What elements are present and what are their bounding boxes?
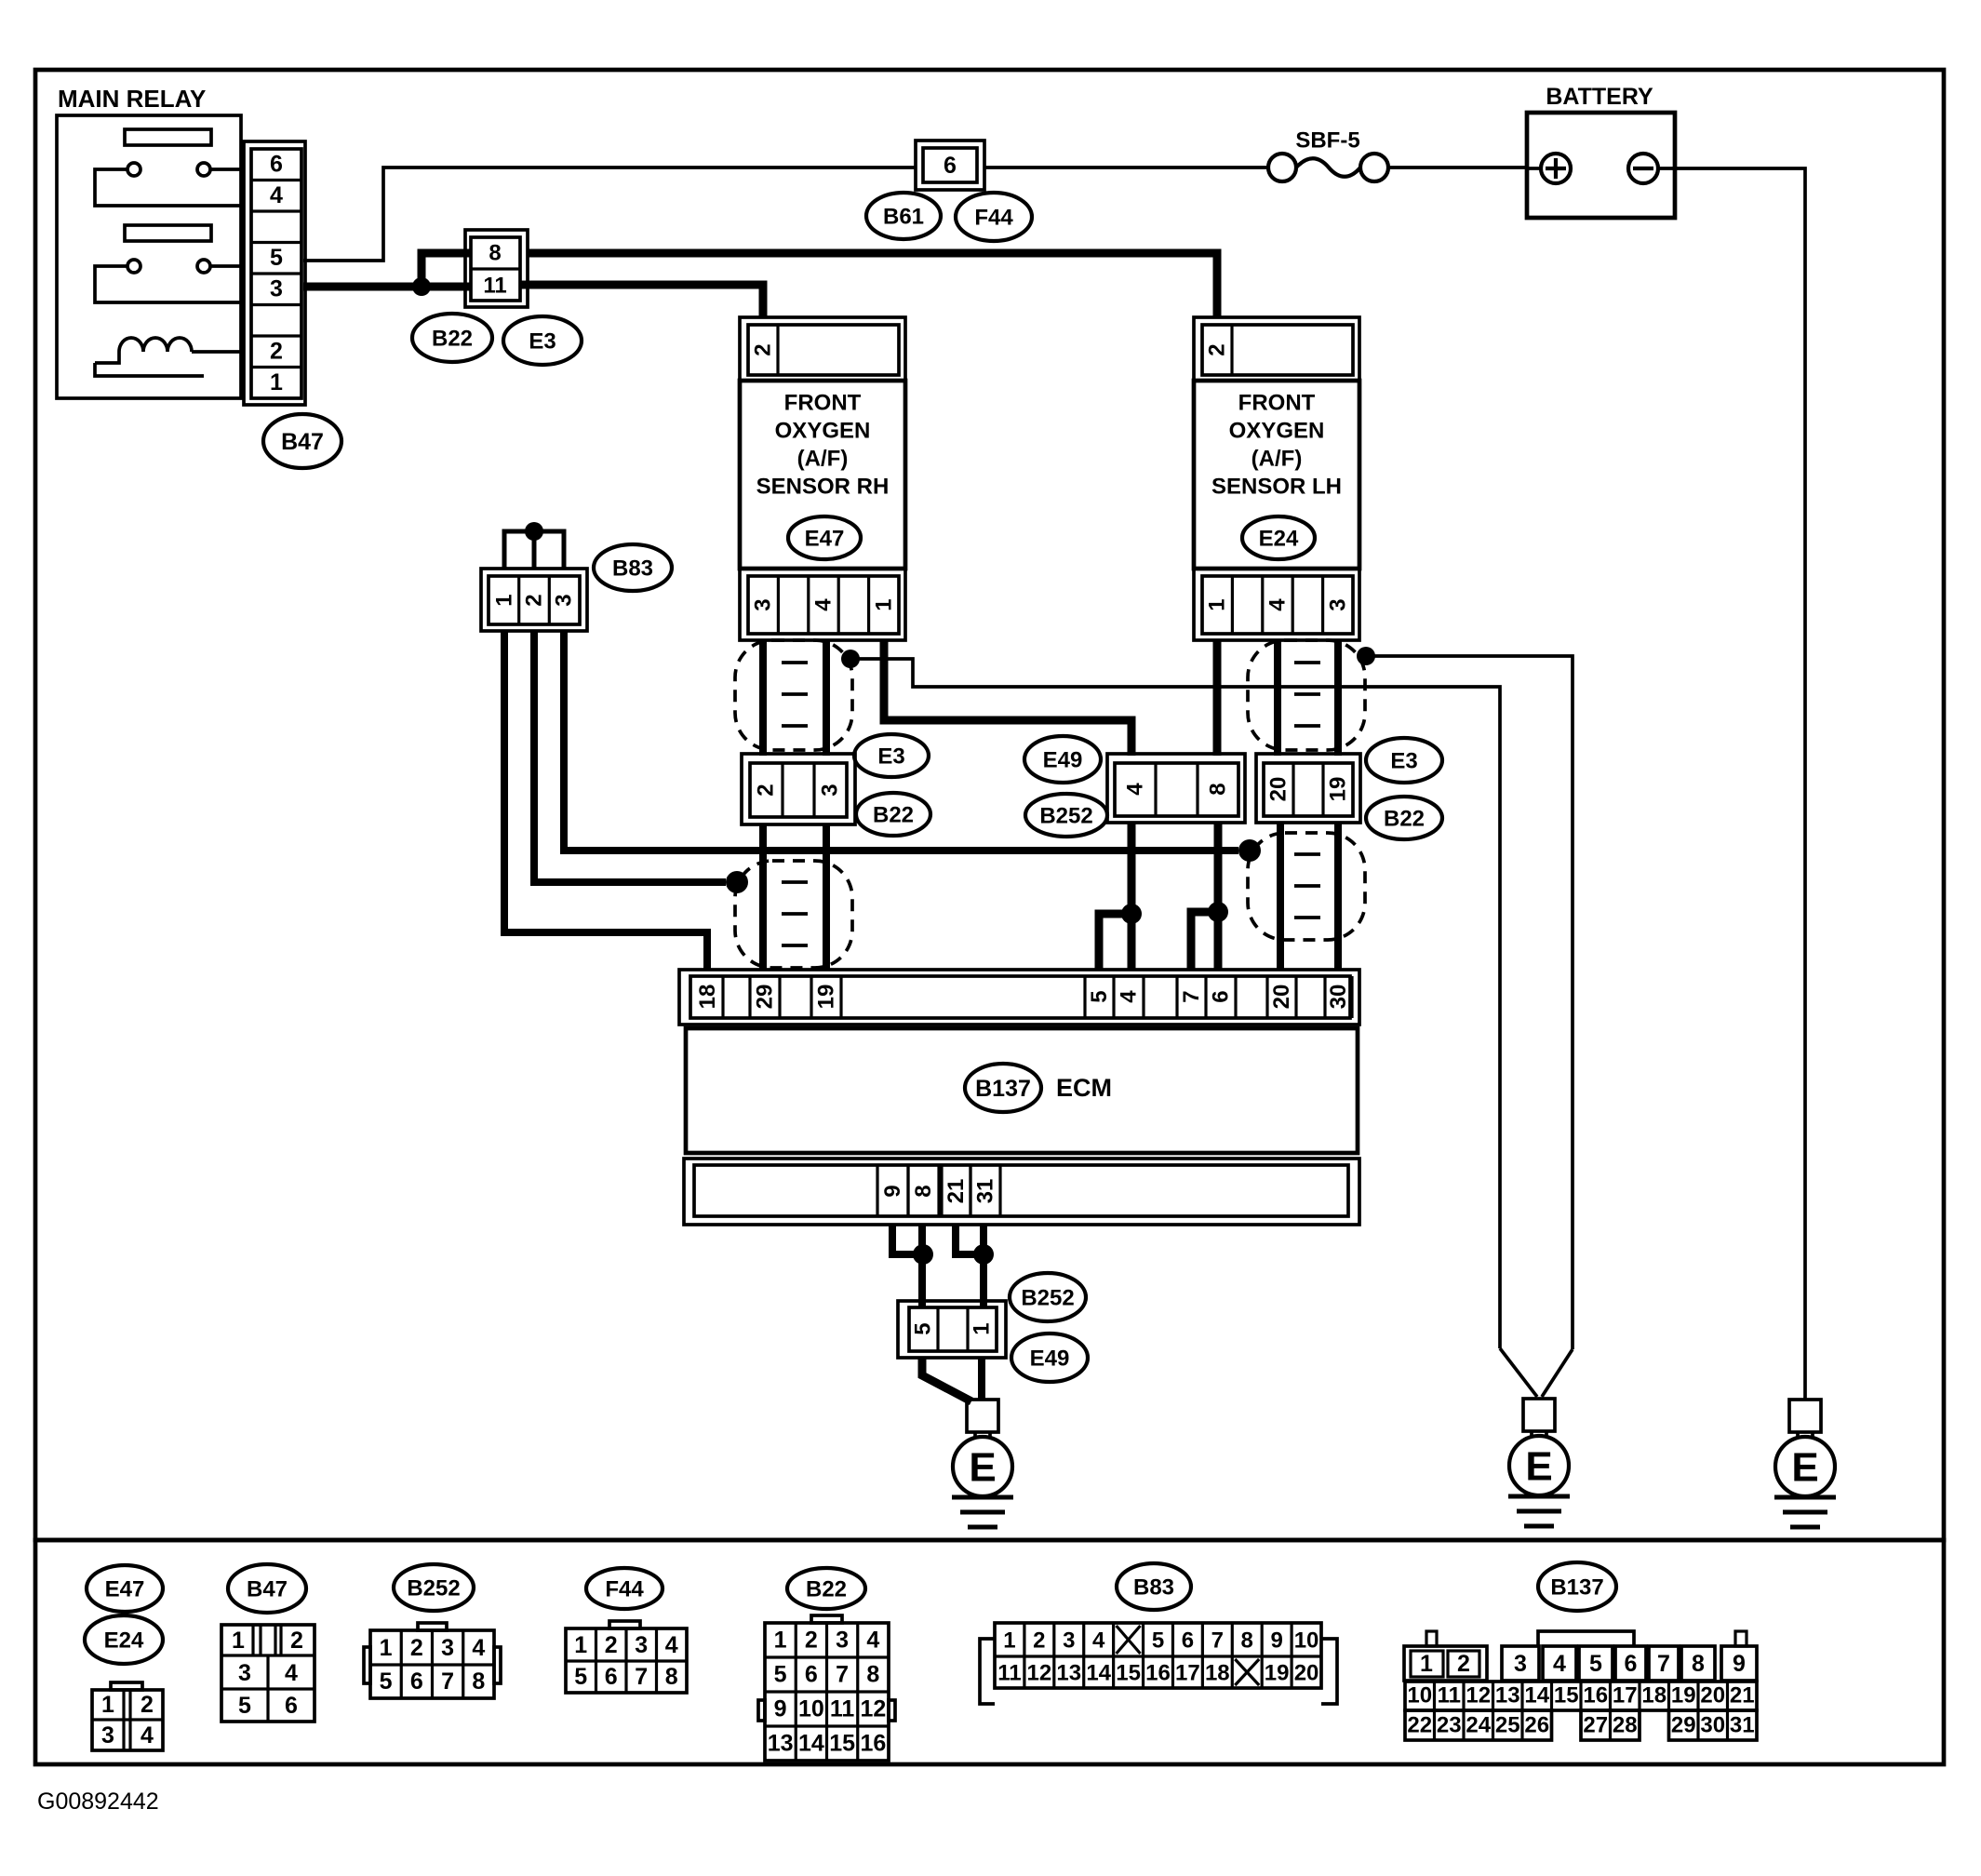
wire junction up to pin 8 [422,253,471,288]
svg-text:21: 21 [944,1179,969,1204]
wire fuse to SBF-5 [984,166,1268,169]
wire / main diagram border [35,70,1944,1540]
wire joint20 to ECM 20 (thick) [1277,823,1284,970]
wire RH pin3 to joint 2 (thick) [759,640,767,756]
svg-text:E49: E49 [1043,748,1083,773]
svg-text:3: 3 [635,1632,648,1658]
connector label E49 (bottom) [1011,1333,1088,1382]
connector label B252 (mid) [1025,794,1107,837]
svg-text:7: 7 [1211,1628,1224,1654]
svg-text:29: 29 [1671,1713,1696,1738]
svg-text:7: 7 [441,1668,454,1695]
battery positive terminal [1527,154,1571,183]
wire ECM pin9 (thick) [892,1225,917,1254]
svg-text:6: 6 [285,1693,298,1719]
svg-text:1: 1 [1003,1628,1015,1654]
svg-text:15: 15 [1116,1661,1141,1686]
svg-text:18: 18 [695,985,720,1010]
svg-text:E: E [1791,1445,1818,1491]
node LH lower shield drain dot [1238,839,1261,862]
svg-text:10: 10 [1294,1628,1319,1654]
svg-text:19: 19 [1265,1661,1290,1686]
connector 8/11 (B22/E3) [465,230,528,307]
svg-text:8: 8 [1241,1628,1253,1654]
ground E (right, battery) [1774,1400,1836,1527]
svg-text:2: 2 [522,594,547,606]
svg-text:7: 7 [635,1664,648,1690]
legend connector label B47 [228,1564,306,1613]
svg-text:15: 15 [829,1731,855,1757]
svg-text:4: 4 [270,182,283,208]
svg-text:4: 4 [1092,1628,1105,1654]
wire RH shield drain to ground (thin) [850,659,1500,1348]
wire joint2 to ECM 29 (thick) [759,824,767,970]
wire ECM pin21 (thick) [956,1225,978,1254]
svg-text:13: 13 [1056,1661,1081,1686]
battery label [1546,84,1653,110]
svg-text:11: 11 [830,1696,855,1722]
wire B83 pin3 to LH lower shield (thick) [564,631,1238,851]
svg-text:B22: B22 [1384,807,1425,832]
node LH shield drain dot [1357,647,1375,665]
connector LH sensor bottom (pins 1,4,3) [1194,569,1359,640]
wire RH pin4 to joint 3 (thick) [823,640,830,756]
svg-text:B252: B252 [1021,1286,1074,1311]
connector B83 [481,569,587,631]
legend connector F44 pinout [566,1621,687,1693]
legend connector label B252 [394,1564,474,1611]
wire relay pin3 (thick) to joint connector [303,283,471,291]
wire branch to ECM 5 (thick) [1099,914,1131,970]
svg-text:2: 2 [751,343,776,355]
relay MAIN RELAY box [57,115,241,398]
svg-text:5: 5 [574,1664,587,1690]
connector 4/8 (E49/B252) [1107,754,1245,823]
legend connector label B137 [1538,1562,1616,1611]
legend connector label E24 [85,1615,163,1664]
svg-text:1: 1 [774,1628,787,1654]
svg-text:30: 30 [1700,1713,1725,1738]
battery negative terminal [1628,154,1658,183]
svg-text:3: 3 [238,1660,251,1686]
figure number G00892442 [37,1789,159,1815]
legend connector B137 pinout [1404,1631,1757,1740]
connector label B137 (ECM) [965,1064,1041,1112]
svg-text:1: 1 [492,594,517,606]
wire LH pin3 to joint 19 (thick) [1334,640,1342,756]
svg-text:22: 22 [1407,1713,1432,1738]
wire SBF-5 to battery [1388,166,1527,169]
svg-text:12: 12 [860,1696,886,1722]
svg-text:E3: E3 [529,329,555,355]
svg-text:1: 1 [1205,598,1230,610]
connector RH sensor bottom (pins 3,4,1) [740,569,905,640]
svg-text:26: 26 [1524,1713,1549,1738]
fusible link SBF-5 [1268,154,1388,181]
wire joint19 to ECM 30 (thick) [1334,823,1342,970]
svg-text:OXYGEN: OXYGEN [775,419,871,444]
svg-text:B137: B137 [1550,1575,1603,1601]
svg-text:13: 13 [1495,1683,1520,1708]
svg-text:6: 6 [1625,1651,1638,1677]
svg-text:3: 3 [1063,1628,1075,1654]
svg-text:27: 27 [1583,1713,1608,1738]
connector label F44 (top) [956,193,1032,241]
svg-text:1: 1 [380,1635,393,1661]
connector 5/1 (B252/E49) [898,1301,1006,1358]
svg-text:20: 20 [1294,1661,1319,1686]
svg-text:11: 11 [997,1661,1021,1686]
svg-text:B83: B83 [1133,1575,1174,1601]
legend connector E47/E24 pinout [92,1682,163,1750]
node RH shield drain dot [841,650,860,668]
svg-text:E49: E49 [1030,1347,1070,1372]
svg-text:E24: E24 [104,1628,144,1654]
svg-text:4: 4 [1265,598,1291,611]
legend connector B22 pinout [758,1615,895,1761]
svg-text:7: 7 [836,1662,849,1688]
svg-text:5: 5 [774,1662,787,1688]
svg-text:15: 15 [1554,1683,1579,1708]
relay contact 2 terminals [95,260,241,302]
component FRONT OXYGEN (A/F) SENSOR LH box [1194,381,1359,569]
svg-text:B252: B252 [1039,804,1092,829]
svg-text:16: 16 [1583,1683,1608,1708]
ground E (middle) [1508,1399,1570,1526]
node junction pin21/pin31 [973,1244,994,1265]
svg-text:12: 12 [1027,1661,1052,1686]
connector label B83 (main) [594,544,672,591]
svg-text:9: 9 [880,1185,905,1197]
svg-text:2: 2 [605,1632,618,1658]
connector label B47 [263,414,341,468]
svg-text:8: 8 [1692,1651,1705,1677]
svg-text:2: 2 [410,1635,423,1661]
svg-text:SENSOR RH: SENSOR RH [756,475,890,500]
svg-text:7: 7 [1657,1651,1670,1677]
svg-text:1: 1 [574,1632,587,1658]
wire B83 pin2 to RH lower shield (thick) [534,631,726,882]
svg-text:14: 14 [798,1731,824,1757]
svg-text:6: 6 [1209,990,1234,1002]
svg-text:3: 3 [270,276,283,302]
svg-text:11: 11 [483,274,506,299]
wire E49 pin4 to ECM 4 (thick) [1128,823,1136,970]
svg-text:SENSOR LH: SENSOR LH [1211,475,1342,500]
svg-text:3: 3 [1514,1651,1527,1677]
relay MAIN RELAY label [58,85,206,113]
svg-text:E47: E47 [805,527,845,552]
svg-text:3: 3 [836,1628,849,1654]
svg-text:E: E [969,1445,996,1491]
svg-text:2: 2 [290,1628,303,1654]
svg-text:17: 17 [1175,1661,1200,1686]
svg-text:8: 8 [489,241,501,266]
svg-text:4: 4 [866,1628,879,1654]
wire LH shield drain to ground (thin) [1366,656,1573,1349]
wire joint3 to ECM 19 (thick) [823,824,830,970]
svg-text:11: 11 [1438,1683,1461,1708]
svg-text:B47: B47 [247,1577,288,1602]
svg-text:16: 16 [1145,1661,1171,1686]
wire RH pin1 to E49 pin4 (thick) [884,640,1131,756]
connector 20/19 (B22/E3 LH) [1256,754,1360,823]
component ECM box [686,1028,1358,1153]
svg-text:24: 24 [1466,1713,1491,1738]
svg-text:8: 8 [866,1662,879,1688]
svg-text:28: 28 [1613,1713,1638,1738]
svg-text:3: 3 [101,1722,114,1749]
svg-text:6: 6 [944,153,957,179]
svg-text:E3: E3 [877,744,904,770]
svg-text:B137: B137 [975,1076,1031,1102]
svg-text:19: 19 [1671,1683,1696,1708]
svg-text:4: 4 [1117,990,1142,1003]
svg-text:23: 23 [1437,1713,1462,1738]
fuse 6 box [916,141,984,190]
node junction pin9/pin8 [913,1244,933,1265]
connector B47 (main relay) [244,141,305,405]
svg-text:1: 1 [1420,1651,1433,1677]
svg-text:4: 4 [285,1660,298,1686]
connector label E49 (mid) [1024,736,1101,783]
svg-text:F44: F44 [605,1577,644,1602]
connector ECM top row [679,970,1359,1025]
svg-text:E3: E3 [1390,749,1417,774]
component ECM text [1056,1074,1112,1102]
svg-text:5: 5 [911,1322,936,1334]
connector RH sensor top (pin 2) [740,317,905,381]
relay contact 1 bar [125,129,211,145]
svg-text:4: 4 [1553,1651,1566,1677]
svg-text:6: 6 [410,1668,423,1695]
component FRONT OXYGEN SENSOR RH text [756,391,890,500]
svg-text:B22: B22 [806,1577,847,1602]
svg-text:3: 3 [441,1635,454,1661]
connector ECM bottom row [684,1159,1359,1225]
wire B83 pins common loop [504,531,564,569]
svg-text:1: 1 [872,598,897,610]
svg-text:6: 6 [605,1664,618,1690]
svg-text:29: 29 [753,985,778,1010]
svg-text:SBF-5: SBF-5 [1295,128,1359,154]
svg-text:10: 10 [1407,1683,1432,1708]
svg-text:6: 6 [270,152,283,178]
svg-text:3: 3 [552,594,577,606]
connector label B61 [866,193,941,239]
battery box [1527,113,1675,218]
svg-text:19: 19 [1326,777,1351,802]
connector 2/3 (E3/B22 RH) [742,754,855,824]
svg-text:B61: B61 [883,205,924,230]
shield LH lower (dashed) [1248,833,1365,940]
svg-text:18: 18 [1205,1661,1230,1686]
svg-text:8: 8 [665,1664,678,1690]
relay contact 1 terminals [95,163,241,206]
svg-text:13: 13 [768,1731,794,1757]
svg-text:(A/F): (A/F) [1252,447,1303,472]
svg-text:5: 5 [270,245,283,271]
svg-text:B22: B22 [873,803,914,828]
svg-text:20: 20 [1269,985,1294,1010]
svg-text:9: 9 [774,1696,787,1722]
connector label E3 (top) [503,316,582,365]
svg-text:G00892442: G00892442 [37,1789,159,1815]
svg-text:19: 19 [814,985,839,1010]
svg-text:FRONT: FRONT [784,391,862,416]
ground E (left, E49) [952,1400,1013,1527]
connector label B22 (RH) [856,793,930,836]
svg-text:31: 31 [973,1179,998,1204]
svg-text:1: 1 [270,369,283,395]
svg-text:3: 3 [818,784,843,796]
svg-text:4: 4 [811,598,837,611]
svg-text:3: 3 [751,598,776,610]
connector label E3 (LH) [1366,738,1442,783]
svg-text:20: 20 [1700,1683,1725,1708]
svg-text:18: 18 [1641,1683,1666,1708]
svg-text:17: 17 [1613,1683,1638,1708]
connector LH sensor top (pin 2) [1194,317,1359,381]
svg-text:6: 6 [805,1662,818,1688]
shield RH lower (dashed) [735,861,852,968]
svg-text:B47: B47 [281,429,324,455]
connector label E24 (sensor LH) [1242,516,1315,559]
svg-text:5: 5 [1152,1628,1164,1654]
svg-text:1: 1 [970,1322,995,1334]
svg-text:25: 25 [1495,1713,1520,1738]
legend connector label B22 [787,1568,865,1609]
svg-text:9: 9 [1733,1651,1746,1677]
wire LH pin1 to E49 pin8 (thick) [1213,640,1222,756]
wire pin8 to LH sensor pin2 (thick) [528,253,1217,317]
svg-text:20: 20 [1266,777,1292,802]
connector label E47 (sensor RH) [788,516,861,559]
wire E49 pin8 to ECM 6 (thick) [1214,823,1223,970]
legend connector label E47 [87,1565,163,1612]
relay contact 2 bar [125,225,211,241]
svg-text:(A/F): (A/F) [797,447,849,472]
legend connector B252 pinout [364,1623,501,1698]
svg-text:OXYGEN: OXYGEN [1229,419,1325,444]
svg-text:8: 8 [472,1668,485,1695]
svg-text:12: 12 [1466,1683,1491,1708]
svg-text:4: 4 [665,1632,678,1658]
svg-text:16: 16 [860,1731,886,1757]
legend connector label F44 [586,1568,663,1609]
svg-text:ECM: ECM [1056,1074,1112,1102]
wire branch to ECM 7 (thick) [1191,912,1218,970]
svg-text:9: 9 [1270,1628,1282,1654]
node RH lower shield drain dot [726,871,748,893]
svg-text:8: 8 [911,1185,936,1197]
connector label B22 (top) [412,314,492,362]
node junction E49 pin8 branch [1208,902,1228,922]
svg-text:E24: E24 [1259,527,1299,552]
component FRONT OXYGEN (A/F) SENSOR RH box [740,381,905,569]
wire B252 pin1 to ground terminal (thick) [978,1358,985,1400]
component FRONT OXYGEN SENSOR LH text [1211,391,1342,500]
svg-text:5: 5 [238,1693,251,1719]
svg-text:14: 14 [1524,1683,1549,1708]
svg-text:2: 2 [1205,343,1230,355]
wire relay pin5 to fuse 6 [303,167,916,261]
svg-text:E: E [1525,1444,1552,1490]
wire B252 pin5 to ground terminal (thick) [922,1358,971,1401]
svg-text:5: 5 [1589,1651,1602,1677]
wire ECM pin31 to B252 pin1 (thick) [980,1225,987,1307]
legend connector label B83 [1117,1563,1191,1610]
svg-text:2: 2 [754,784,779,796]
svg-text:4: 4 [141,1722,154,1749]
shield LH upper (dashed) [1248,640,1365,750]
relay coil [95,338,241,376]
svg-text:4: 4 [472,1635,485,1661]
svg-text:31: 31 [1730,1713,1755,1738]
svg-text:1: 1 [232,1628,245,1654]
svg-text:4: 4 [1123,783,1148,796]
svg-text:MAIN RELAY: MAIN RELAY [58,85,206,113]
svg-text:5: 5 [380,1668,393,1695]
svg-text:B252: B252 [407,1576,460,1601]
svg-text:FRONT: FRONT [1238,391,1316,416]
svg-text:8: 8 [1206,783,1231,795]
svg-text:BATTERY: BATTERY [1546,84,1653,110]
svg-text:10: 10 [798,1696,824,1722]
svg-text:2: 2 [805,1628,818,1654]
svg-text:E47: E47 [105,1577,145,1602]
node junction E49 pin4 branch [1121,904,1142,924]
wire drains converge to middle ground [1500,1348,1573,1397]
svg-text:2: 2 [270,339,283,365]
svg-text:3: 3 [1326,598,1351,610]
svg-text:F44: F44 [974,206,1013,231]
svg-text:6: 6 [1182,1628,1194,1654]
svg-text:1: 1 [101,1692,114,1718]
connector label E3 (RH) [854,734,929,777]
wire LH pin4 to joint 20 (thick) [1274,640,1281,756]
legend connector B83 pinout [980,1623,1337,1704]
wire ECM pin8 to B252 pin5 (thick) [918,1225,926,1307]
legend connector B47 pinout [221,1625,315,1722]
node junction on pin3 wire [412,277,431,296]
wire / legend box border [35,1540,1944,1764]
svg-text:7: 7 [1179,990,1204,1002]
svg-text:2: 2 [141,1692,154,1718]
svg-text:5: 5 [1087,990,1112,1002]
fusible link SBF-5 label [1295,128,1359,154]
node B83 common dot [525,522,543,541]
connector label B252 (bottom) [1010,1273,1086,1321]
connector label B22 (LH) [1366,797,1442,839]
svg-text:2: 2 [1457,1651,1470,1677]
wire battery negative to ground E [1658,168,1805,1400]
svg-text:B83: B83 [612,556,653,582]
svg-text:B22: B22 [432,327,473,352]
svg-text:30: 30 [1326,985,1351,1010]
svg-text:21: 21 [1730,1683,1755,1708]
svg-text:14: 14 [1086,1661,1111,1686]
wire pin11 to RH sensor pin2 (thick) [520,285,763,317]
shield RH upper (dashed) [735,640,852,750]
wire B83 pin1 to ECM 18 (thick) [504,631,707,970]
svg-text:2: 2 [1033,1628,1045,1654]
